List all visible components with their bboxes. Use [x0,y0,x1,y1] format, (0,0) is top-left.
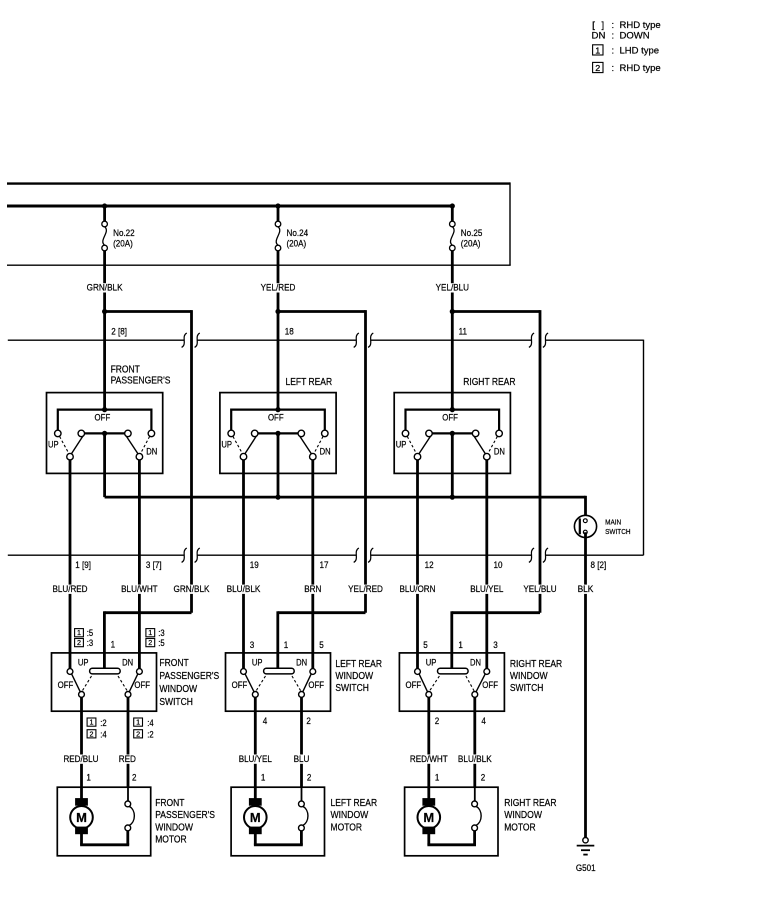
svg-text:LEFT REAR: LEFT REAR [331,798,378,809]
connector break mark [529,333,534,347]
wire: FRONT PASSENGER'S switch UP output [69,460,72,669]
contact inner right (RIGHT REAR) [472,430,479,437]
svg-text:No.25: No.25 [461,228,483,239]
label wire colour YEL/RED [260,283,297,294]
svg-text::3: :3 [158,628,164,638]
svg-text:1: 1 [148,628,152,637]
motor pin label 1 [86,773,91,784]
wire: YEL/BLU branch vertical drop [539,310,542,613]
svg-text:DN: DN [146,446,157,456]
svg-text:MOTOR: MOTOR [504,822,536,833]
pin qualifier boxed 2 :2 (RHD) [134,729,154,739]
connector break mark [195,548,200,562]
svg-text:G501: G501 [576,863,596,874]
label wire colour BLU/RED [51,584,88,595]
svg-text::2: :2 [100,718,106,728]
contact lower (RIGHT REAR motor switch) [472,825,478,831]
label OFF (RIGHT REAR) [442,413,458,423]
fuse No.22 (20A) [102,206,135,251]
pin qualifier boxed 1 :3 (LHD) [146,628,165,638]
contact UP (RIGHT REAR window switch) [415,669,421,675]
contact lower left (FRONT PASSENGER'S) [67,453,74,460]
svg-text:OFF: OFF [232,680,248,690]
svg-text:SWITCH: SWITCH [510,683,544,694]
svg-text:FRONT: FRONT [155,798,184,809]
contact lower right (LEFT REAR) [310,453,317,460]
svg-text:OFF: OFF [308,680,324,690]
contact lower (FRONT motor switch) [125,825,131,831]
wire: RIGHT REAR switch top bar [406,409,500,431]
svg-text:UP: UP [252,658,263,668]
pin label 1 [458,640,463,651]
wire: RIGHT REAR window switch output right [473,697,476,801]
svg-text:BLU/BLK: BLU/BLK [227,584,261,595]
wire: YEL/BLU branch horizontal [452,310,540,313]
svg-text:1: 1 [595,46,601,55]
connector break mark [354,333,359,347]
svg-text:1: 1 [458,640,463,651]
motor pin label 2 [307,773,312,784]
legend: boxed 2 RHD type note [593,62,661,74]
label wire colour BLU/BLK [226,584,262,595]
switch RIGHT REAR door switch body [394,393,510,474]
svg-text:DN: DN [470,658,481,668]
svg-text:UP: UP [78,658,89,668]
svg-text:M: M [76,810,87,825]
label OFF left (FRONT PASSENGER'S window switch) [58,680,74,690]
svg-text:YEL/RED: YEL/RED [261,283,296,294]
switch LEFT REAR window switch body [226,653,331,711]
svg-text:1: 1 [86,773,91,784]
contact lower right (LEFT REAR window switch) [299,692,305,698]
label wire colour YEL/RED [347,584,384,595]
rocker actuator (LEFT REAR window switch) [264,668,295,674]
pin qualifier boxed 2 :5 (RHD) [146,638,165,648]
svg-text:OFF: OFF [268,413,284,423]
svg-text:No.24: No.24 [287,228,309,239]
svg-text:SWITCH: SWITCH [605,527,631,536]
svg-text:2 [8]: 2 [8] [111,327,127,338]
contact lower left (RIGHT REAR window switch) [426,692,432,698]
svg-text:GRN/BLK: GRN/BLK [174,584,211,595]
switch blade dashed right (RIGHT REAR window switch) [466,676,474,691]
connector break mark [529,548,534,562]
svg-text:PASSENGER'S: PASSENGER'S [111,375,171,386]
svg-text:2: 2 [90,729,94,738]
node: YEL/RED branch junction [275,309,280,314]
connector boundary line upper (with breaks) [8,339,644,341]
svg-text:MOTOR: MOTOR [331,822,363,833]
svg-text:1: 1 [261,773,266,784]
label LEFT REAR WINDOW MOTOR [331,798,378,833]
wire: FRONT PASSENGER'S switch top bar [58,409,152,431]
label UP (RIGHT REAR window switch) [426,658,437,668]
motor box RIGHT REAR window motor [405,787,498,856]
contact lower left (LEFT REAR window switch) [252,692,258,698]
node: common line junction at LEFT REAR [275,495,280,500]
wire: branch into FRONT PASSENGER'S window switch pin 1 [104,611,191,668]
svg-text:BLU/WHT: BLU/WHT [121,584,158,595]
ground G501 [576,838,596,875]
pin label 1 [284,640,289,651]
wire YEL/RED: fuse output down to switch [277,251,280,411]
svg-text:PASSENGER'S: PASSENGER'S [155,810,215,821]
svg-text:DN: DN [494,446,505,456]
contact DN outer (FRONT PASSENGER'S) [148,430,155,437]
svg-text:OFF: OFF [442,413,458,423]
svg-text:RIGHT REAR: RIGHT REAR [510,659,562,670]
svg-text::: : [612,63,615,74]
switch blade solid right (FRONT PASSENGER'S) [126,436,138,454]
label OFF (LEFT REAR) [268,413,284,423]
pin label 11 [459,327,467,338]
label wire colour BLU/YEL [469,584,504,595]
svg-text:4: 4 [263,716,268,727]
switch blade dashed left (LEFT REAR) [233,437,243,454]
wire: switch commons to main switch [105,496,586,499]
label UP (LEFT REAR) [221,439,232,449]
svg-text:RED/WHT: RED/WHT [410,754,448,765]
motor pin label 1 [261,773,266,784]
switch LEFT REAR door switch body [220,393,336,474]
wire: LEFT REAR motor return path [254,831,303,845]
switch blade arc (FRONT motor) [129,806,134,825]
svg-text:UP: UP [221,439,232,449]
pin label 2 [435,716,440,727]
svg-text:BLK: BLK [578,584,594,595]
connector break mark [182,333,187,347]
svg-text:UP: UP [396,439,407,449]
label LEFT REAR WINDOW SWITCH [335,659,382,694]
pin label 12 [425,560,434,571]
fuse No.24 (20A) [275,206,308,251]
contact DN outer (LEFT REAR) [322,430,329,437]
wire: RIGHT REAR motor return path [427,831,476,845]
switch blade solid left (FRONT PASSENGER'S window switch) [72,674,81,692]
svg-text:2: 2 [306,716,311,727]
svg-text:PASSENGER'S: PASSENGER'S [159,671,219,682]
switch blade solid right (LEFT REAR window switch) [303,674,312,692]
switch blade solid right (RIGHT REAR window switch) [476,674,485,692]
wire: LEFT REAR window switch output left [254,697,257,798]
switch blade solid right (LEFT REAR) [300,436,312,454]
wire: common line drop into main switch [584,496,587,521]
motor M (RIGHT REAR window motor) [418,798,441,834]
label UP (LEFT REAR window switch) [252,658,263,668]
svg-text:8 [2]: 8 [2] [591,560,607,571]
svg-text:5: 5 [319,640,324,651]
svg-text:OFF: OFF [58,680,74,690]
wire: RIGHT REAR switch common output [451,433,454,497]
svg-text:WINDOW: WINDOW [504,810,542,821]
label DN (LEFT REAR window switch) [296,658,307,668]
label OFF right (RIGHT REAR window switch) [482,680,498,690]
svg-text:FRONT: FRONT [111,364,140,375]
label DN (FRONT PASSENGER'S window switch) [122,658,133,668]
contact upper (LEFT REAR motor switch) [299,801,305,807]
wire: FRONT PASSENGER'S window switch output left [80,697,83,798]
svg-text:UP: UP [48,439,59,449]
label wire colour YEL/BLU [522,584,557,595]
label MAIN SWITCH [605,517,631,536]
wire: branch into LEFT REAR window switch pin 1 [278,611,366,668]
pin label 18 [285,327,294,338]
svg-text:MOTOR: MOTOR [155,835,187,846]
svg-text::: : [612,30,615,41]
svg-text:1: 1 [90,718,94,727]
pin qualifier boxed 1 :2 (LHD) [87,718,107,728]
label UP (FRONT PASSENGER'S window switch) [78,658,89,668]
svg-text:(20A): (20A) [113,239,133,250]
svg-text:SWITCH: SWITCH [335,683,369,694]
contact inner right (FRONT PASSENGER'S) [125,430,131,437]
node: LEFT REAR switch common feed dot [275,407,280,412]
pin label 1 (window switch center) [111,640,116,651]
contact inner left (RIGHT REAR) [426,430,433,437]
svg-text:(20A): (20A) [287,239,307,250]
label wire colour BLU lower [293,754,311,765]
contact lower right (FRONT PASSENGER'S) [136,453,143,460]
switch blade solid right (RIGHT REAR) [474,436,486,454]
label wire colour RED lower [118,754,137,765]
wire: RIGHT REAR window switch output left [427,697,430,798]
label wire colour BLU/BLK lower [457,754,493,765]
svg-text:11: 11 [459,327,467,338]
svg-text:WINDOW: WINDOW [510,671,548,682]
svg-text:WINDOW: WINDOW [155,822,193,833]
switch blade dashed right (FRONT PASSENGER'S window switch) [118,676,128,691]
svg-text:WINDOW: WINDOW [331,810,369,821]
svg-text:M: M [423,810,434,825]
pin label 5 [319,640,324,651]
svg-text:4: 4 [481,716,486,727]
svg-text:2: 2 [77,638,81,647]
label UP (FRONT PASSENGER'S) [48,439,59,449]
svg-text:OFF: OFF [482,680,498,690]
switch FRONT PASSENGER'S door switch body [47,393,163,474]
contact UP (LEFT REAR window switch) [241,669,247,675]
switch blade dashed left (FRONT PASSENGER'S) [60,437,69,454]
pin qualifier boxed 1 :5 (LHD) [75,628,94,638]
fuse No.25 (20A) [450,206,483,251]
switch blade dashed left (LEFT REAR window switch) [256,676,266,691]
connector boundary line lower (with breaks) [8,554,644,556]
svg-text:1: 1 [284,640,289,651]
svg-text:3: 3 [250,640,255,651]
pin label 17 [320,560,329,571]
svg-text:RED: RED [119,754,136,765]
motor pin label 2 [132,773,137,784]
legend: bracket RHD type note [592,20,661,31]
svg-text:2: 2 [136,729,140,738]
wire: fuse box top rail [7,182,510,184]
svg-text:17: 17 [320,560,329,571]
label wire colour GRN/BLK [173,584,211,595]
label wire colour BLU/ORN [399,584,437,595]
svg-text:1 [9]: 1 [9] [75,560,91,571]
motor box FRONT window motor [57,787,150,856]
node: RIGHT REAR switch common feed dot [450,407,455,412]
contact UP outer (LEFT REAR) [228,430,235,437]
contact lower right (RIGHT REAR window switch) [472,692,478,698]
wire: LEFT REAR switch common output [277,433,280,497]
switch blade solid left (LEFT REAR) [245,436,257,454]
svg-text:RHD type: RHD type [620,63,661,74]
contact upper (FRONT motor switch) [125,801,131,807]
contact DN outer (RIGHT REAR) [496,430,503,437]
switch blade dashed right (LEFT REAR) [314,437,323,454]
contact upper (RIGHT REAR motor switch) [472,801,478,807]
pin label 5 [423,640,428,651]
svg-text:BLU/YEL: BLU/YEL [239,754,272,765]
wire: YEL/RED branch vertical drop [364,310,367,613]
switch blade solid left (RIGHT REAR) [419,436,431,454]
pin label 4 [481,716,486,727]
pin label 3 [250,640,255,651]
pin qualifier boxed 1 :4 (LHD) [134,718,154,728]
pin label 2 [306,716,311,727]
svg-text:1: 1 [435,773,440,784]
contact DN (RIGHT REAR window switch) [484,669,490,675]
svg-text:BLU: BLU [294,754,310,765]
label DN (RIGHT REAR) [494,446,505,456]
connector break mark [543,333,548,347]
switch blade arc (LEFT REAR motor) [303,806,308,825]
switch RIGHT REAR window switch body [399,653,504,711]
svg-text::3: :3 [87,638,93,648]
switch blade arc (RIGHT REAR motor) [476,806,481,825]
contact inner right (LEFT REAR) [298,430,305,437]
svg-text:LEFT REAR: LEFT REAR [286,377,333,388]
wire: RIGHT REAR switch UP output [416,460,419,669]
connector break mark [354,548,359,562]
svg-text:M: M [250,810,261,825]
svg-text:BLU/YEL: BLU/YEL [470,584,503,595]
contact inner left (LEFT REAR) [251,430,258,437]
pin label 1 [9] [75,560,91,571]
svg-text:2: 2 [148,638,152,647]
motor M (FRONT window motor) [70,798,93,834]
svg-text:2: 2 [307,773,312,784]
wire: power bus feeding fuses [7,205,452,208]
contact DN (LEFT REAR window switch) [310,669,316,675]
label: FRONT PASSENGER'S (upper switch title) [111,364,171,386]
contact UP outer (FRONT PASSENGER'S) [55,430,62,437]
svg-text:1: 1 [77,628,81,637]
motor pin label 1 [435,773,440,784]
wire: FRONT PASSENGER'S switch middle bar [85,432,125,434]
svg-text:YEL/RED: YEL/RED [348,584,383,595]
pin qualifier boxed 2 :4 (RHD) [87,729,107,739]
connector break mark [182,548,187,562]
wire: FRONT PASSENGER'S switch common output [103,433,106,497]
pin label 4 [263,716,268,727]
contact DN (FRONT PASSENGER'S window switch) [137,669,143,675]
svg-text:GRN/BLK: GRN/BLK [87,283,124,294]
wire: fuse box right edge [509,182,511,265]
wire: YEL/RED branch horizontal [278,310,366,313]
svg-text:OFF: OFF [134,680,150,690]
wire: FRONT PASSENGER'S window switch output right [127,697,130,801]
wire: GRN/BLK branch horizontal [105,310,192,313]
wire: branch into RIGHT REAR window switch pin 1 [452,611,540,668]
label FRONT PASSENGER'S WINDOW SWITCH [159,658,219,708]
contact lower right (FRONT PASSENGER'S window switch) [125,692,131,698]
switch blade solid left (LEFT REAR window switch) [245,674,254,692]
wire: FRONT PASSENGER'S switch DN output [138,460,141,669]
wire: GRN/BLK branch vertical drop [190,310,193,613]
label wire colour BLU/WHT [120,584,159,595]
svg-text:BLU/ORN: BLU/ORN [400,584,436,595]
svg-text:DN: DN [296,658,307,668]
node: bus tap junction for fuse No.22 [102,203,107,208]
wire: RIGHT REAR switch middle bar [432,432,472,434]
switch blade dashed left (FRONT PASSENGER'S window switch) [82,676,92,691]
node: GRN/BLK branch junction [102,309,107,314]
svg-text::2: :2 [147,730,153,740]
label OFF right (LEFT REAR window switch) [308,680,324,690]
motor pin label 2 [481,773,486,784]
label: LEFT REAR (upper switch title) [286,377,333,388]
label wire colour GRN/BLK [86,283,124,294]
svg-text:YEL/BLU: YEL/BLU [436,283,469,294]
wire: fuse box bottom edge [7,264,511,266]
svg-text:12: 12 [425,560,434,571]
svg-text:LHD type: LHD type [620,46,660,57]
connector break mark [195,333,200,347]
switch blade dashed left (RIGHT REAR window switch) [429,676,439,691]
label wire colour BLU/YEL lower [238,754,273,765]
switch blade solid left (RIGHT REAR window switch) [419,674,428,692]
wire YEL/BLU: fuse output down to switch [451,251,454,411]
svg-text:WINDOW: WINDOW [335,671,373,682]
svg-text:2: 2 [481,773,486,784]
node: YEL/BLU branch junction [450,309,455,314]
svg-text:1: 1 [111,640,116,651]
svg-text::4: :4 [147,718,153,728]
svg-text::4: :4 [100,730,106,740]
label wire colour YEL/BLU [435,283,470,294]
svg-text:(20A): (20A) [461,239,481,250]
svg-text:LEFT REAR: LEFT REAR [335,659,382,670]
wire: FRONT motor return path [80,831,129,845]
node: bus tap junction for fuse No.25 [450,203,455,208]
connector break mark [368,548,373,562]
pin qualifier boxed 2 :3 (RHD) [75,638,94,648]
connector break mark [368,333,373,347]
wire: RIGHT REAR switch DN output [485,460,488,669]
svg-text:YEL/BLU: YEL/BLU [523,584,556,595]
svg-text:OFF: OFF [95,413,111,423]
label RIGHT REAR WINDOW SWITCH [510,659,562,694]
wire: LEFT REAR switch UP output [242,460,245,669]
contact lower left (FRONT PASSENGER'S window switch) [79,692,85,698]
switch blade dashed right (RIGHT REAR) [488,437,498,454]
label wire colour RED/BLU lower [62,754,99,765]
label wire colour BRN [303,584,322,595]
wire: connector boundary right rail [643,340,645,556]
wire: LEFT REAR switch DN output [311,460,314,669]
motor box LEFT REAR window motor [231,787,324,856]
svg-text:OFF: OFF [406,680,422,690]
switch blade solid left (FRONT PASSENGER'S) [71,436,83,454]
svg-text::5: :5 [87,628,93,638]
svg-text:DN: DN [122,658,133,668]
pin label 19 [250,560,259,571]
connector break mark [543,548,548,562]
rocker actuator (FRONT PASSENGER'S window switch) [90,668,121,674]
contact lower right (RIGHT REAR) [484,453,491,460]
